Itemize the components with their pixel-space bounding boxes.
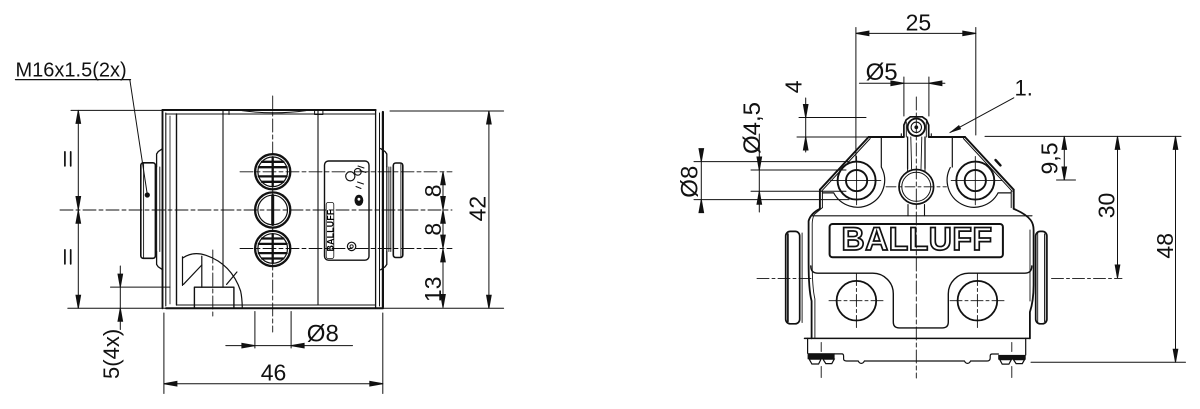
terminal screw circle 3 — [255, 231, 290, 266]
plunger stem — [908, 137, 925, 171]
dimension diameter 8 bottom — [226, 312, 353, 349]
lower contour with notch — [811, 266, 1032, 328]
bottom line and feet — [805, 338, 1030, 377]
dimension 30 — [1052, 136, 1123, 278]
svg-text:8: 8 — [420, 223, 446, 236]
svg-text:Ø8: Ø8 — [307, 320, 339, 347]
side connector right — [1036, 231, 1047, 323]
svg-text:BALLUFF: BALLUFF — [841, 221, 992, 257]
right connector gland — [381, 149, 403, 270]
left view body outline — [163, 110, 384, 308]
right view lower body sides — [809, 208, 1034, 339]
svg-text:8: 8 — [420, 185, 446, 198]
dimension 48 — [1031, 136, 1186, 362]
mounting hole top-right — [951, 157, 1001, 205]
svg-text:42: 42 — [465, 196, 491, 222]
dimension 46 — [164, 313, 383, 394]
plunger guide circle — [886, 170, 947, 216]
svg-text:M16x1.5(2x): M16x1.5(2x) — [16, 60, 127, 82]
dimension 25 — [856, 9, 976, 160]
casting bosses around holes — [823, 137, 1011, 207]
dimension 9,5 — [985, 136, 1181, 180]
svg-text:9,5: 9,5 — [1037, 143, 1063, 175]
left cable gland M16 — [141, 149, 163, 270]
dimension 5(4x) — [99, 266, 170, 379]
leader 1. — [949, 76, 1033, 134]
terminal screw circle 2 — [255, 192, 290, 227]
terminal screw circle 1 — [255, 154, 290, 189]
lower fixing hole right — [950, 274, 1005, 329]
dimension diameter 5 — [859, 59, 945, 116]
right view top plate and chamfers — [820, 137, 1014, 209]
svg-text:46: 46 — [261, 359, 287, 385]
centerlines left view — [60, 96, 452, 332]
roller plunger cap — [901, 117, 931, 137]
svg-text:25: 25 — [906, 9, 932, 35]
svg-text:48: 48 — [1152, 233, 1178, 259]
chain dimensions 8 8 13 — [420, 172, 446, 308]
svg-text:4: 4 — [781, 80, 807, 93]
roller plunger dome mechanism — [183, 254, 243, 309]
side connector left — [757, 231, 812, 323]
dimension diameter 4,5 — [739, 102, 846, 212]
svg-text:30: 30 — [1094, 193, 1120, 219]
svg-text:Ø5: Ø5 — [866, 59, 898, 86]
svg-text:Ø8: Ø8 — [677, 166, 704, 198]
dimension 42 — [383, 111, 504, 308]
right view vertical centerline — [915, 97, 917, 378]
BALLUFF logo plate — [830, 221, 1003, 257]
lower fixing hole left — [829, 274, 884, 329]
mounting hole top-left (dia 4.5 / 8) — [831, 157, 881, 205]
svg-text:13: 13 — [420, 277, 446, 303]
svg-text:Ø4,5: Ø4,5 — [739, 102, 766, 154]
side label panel — [325, 161, 370, 260]
svg-text:BALLUFF: BALLUFF — [325, 209, 335, 251]
equal-spacing dimension left — [65, 110, 166, 308]
dimension diameter 8 left — [677, 149, 850, 213]
dimension 4 — [781, 80, 869, 152]
svg-text:5(4x): 5(4x) — [99, 329, 124, 379]
svg-text:1.: 1. — [1015, 76, 1033, 101]
label M16x1.5(2x) — [16, 60, 150, 198]
